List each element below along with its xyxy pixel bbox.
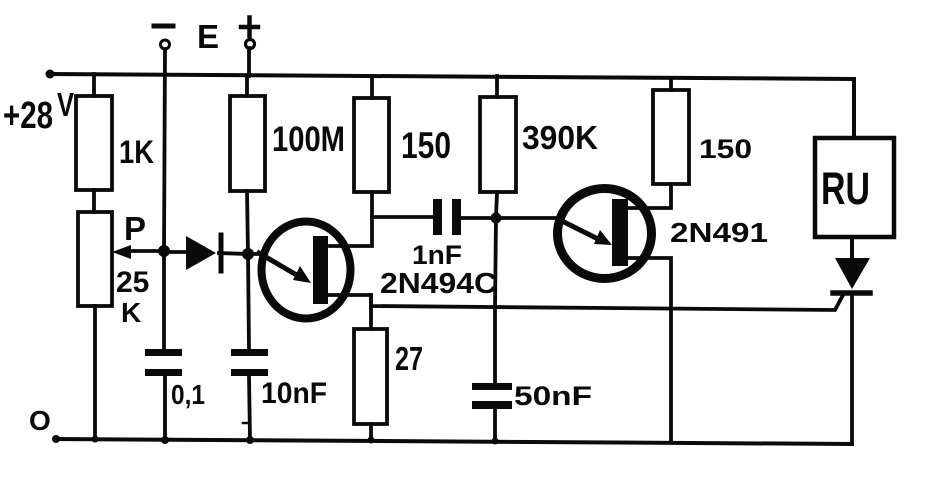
potentiometer wiper arrow xyxy=(124,249,165,253)
resistor R1 1K xyxy=(76,96,112,190)
svg-text:V: V xyxy=(57,86,74,123)
wire lead rail to R3 xyxy=(370,76,374,98)
transistor Q1 base bar xyxy=(313,236,328,304)
wire lead rail to R4 xyxy=(495,76,499,97)
capacitor C1 0,1 plates xyxy=(145,349,182,356)
node C junction C3/R4/Q2 emitter xyxy=(491,213,502,224)
svg-text:2N491: 2N491 xyxy=(670,217,768,248)
svg-text:10nF: 10nF xyxy=(261,377,327,410)
resistor R6 27 xyxy=(354,329,387,424)
resistor R2 100M xyxy=(230,96,265,191)
wire Q2 base2 to R5 xyxy=(628,184,671,208)
transistor Q2 2N491 circle xyxy=(558,189,652,279)
relay RU box xyxy=(815,138,894,237)
wire R3 bottom to base2 of Q1 xyxy=(330,192,372,246)
label +28V xyxy=(3,86,74,137)
svg-text:150: 150 xyxy=(401,125,451,166)
wire thyristor cathode to bottom rail xyxy=(850,295,854,444)
wire node C to Q2 emitter xyxy=(496,216,557,220)
node C1 bottom xyxy=(161,436,169,444)
resistor R3 150 xyxy=(354,98,389,192)
wire node B down to capacitor C2 xyxy=(248,254,249,349)
wire node C down to base1 wire xyxy=(495,218,496,308)
wire base1 to R6 xyxy=(369,295,373,329)
wire from plus terminal down to top rail xyxy=(247,48,251,76)
wire R2 bottom to node B xyxy=(247,191,248,254)
wire R4 bottom to node C xyxy=(496,192,497,218)
wire C1 bottom to bottom rail xyxy=(163,376,167,440)
node B junction diode/R2/C2/emitter Q1 xyxy=(242,248,254,260)
wire lead rail to R5 xyxy=(669,78,673,90)
svg-text:K: K xyxy=(121,297,141,328)
wire RU bottom to thyristor anode xyxy=(850,237,854,260)
svg-text:27: 27 xyxy=(395,340,423,377)
transistor Q2 emitter arrow xyxy=(558,219,600,240)
svg-text:0,1: 0,1 xyxy=(171,379,205,410)
wire C4 bottom to bottom rail xyxy=(493,409,497,442)
wire bottom rail xyxy=(55,439,852,444)
terminal minus of E xyxy=(154,24,173,29)
resistor R4 390K xyxy=(480,97,516,192)
svg-text:1nF: 1nF xyxy=(412,240,462,270)
node left end of bottom rail xyxy=(52,435,60,443)
svg-text:50nF: 50nF xyxy=(514,381,592,411)
svg-text:P: P xyxy=(124,210,146,247)
svg-text:1K: 1K xyxy=(119,134,154,170)
capacitor C3 1nF plates xyxy=(433,199,442,235)
wire node B to Q1 emitter xyxy=(248,252,262,256)
svg-text:100M: 100M xyxy=(272,120,345,159)
diode D1 xyxy=(165,250,186,254)
wire lead rail to R1 xyxy=(92,74,96,96)
wire tick on C2 lead xyxy=(243,422,250,425)
thyristor TH1 triangle xyxy=(835,258,870,289)
wire top supply rail xyxy=(49,74,854,138)
svg-text:390K: 390K xyxy=(522,119,598,156)
node potentiometer bottom on rail xyxy=(92,436,99,443)
wire C4 top lead xyxy=(493,308,497,383)
wire lead rail to R2 xyxy=(245,75,249,96)
svg-text:150: 150 xyxy=(699,134,752,164)
capacitor C4 50nF plates xyxy=(472,383,512,390)
transistor Q2 base bar xyxy=(612,199,628,266)
wire R3 lead to capacitor C3 xyxy=(372,215,433,219)
svg-text:RU: RU xyxy=(821,163,870,214)
wire node A down to capacitor C1 xyxy=(162,251,166,349)
resistor R5 150 xyxy=(653,90,689,184)
svg-text:E: E xyxy=(197,18,219,55)
node A junction wiper/diode/C1 xyxy=(158,245,170,257)
wire from minus terminal down to node A xyxy=(164,49,165,251)
terminal plus of E xyxy=(241,25,258,30)
wire C2 bottom to bottom rail xyxy=(249,376,250,440)
svg-text:+28: +28 xyxy=(3,95,53,137)
thyristor TH1 cathode bar xyxy=(833,290,870,296)
svg-text:25: 25 xyxy=(116,266,149,299)
wire Q1 base1 to thyristor gate xyxy=(327,295,843,310)
capacitor C2 10nF plates xyxy=(231,349,268,356)
node left end of top rail xyxy=(46,70,55,79)
wire potentiometer bottom to bottom rail xyxy=(93,306,97,440)
node C4 bottom xyxy=(492,438,499,445)
node R6 bottom xyxy=(368,437,375,444)
node C2 bottom xyxy=(246,436,254,444)
wire R6 bottom to bottom rail xyxy=(369,424,373,441)
transistor Q1 emitter arrow xyxy=(259,253,300,277)
wire C3 to node C xyxy=(461,216,496,220)
svg-text:O: O xyxy=(29,405,51,436)
transistor Q1 2N494C circle xyxy=(262,222,351,319)
wire lead R1 to potentiometer P xyxy=(92,190,96,212)
wire Q2 base1 to bottom rail xyxy=(628,258,671,442)
svg-text:2N494C: 2N494C xyxy=(380,268,497,300)
potentiometer P 25K body xyxy=(78,212,112,306)
